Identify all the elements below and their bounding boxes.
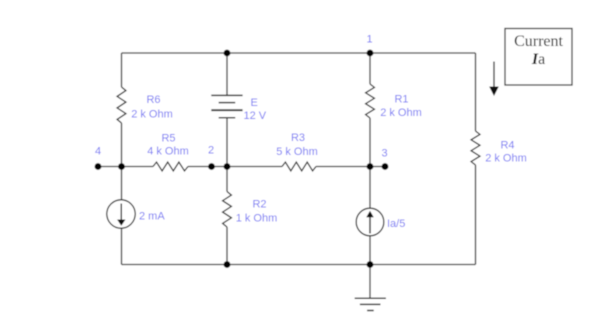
svg-text:Current: Current	[514, 33, 563, 50]
svg-text:2: 2	[208, 145, 214, 157]
svg-text:2 k Ohm: 2 k Ohm	[485, 153, 527, 165]
svg-text:R1: R1	[394, 94, 408, 106]
svg-text:R4: R4	[500, 140, 514, 152]
svg-text:4 k Ohm: 4 k Ohm	[147, 146, 189, 158]
svg-text:Ia: Ia	[531, 51, 545, 68]
svg-text:R2: R2	[252, 199, 266, 211]
svg-text:2 mA: 2 mA	[139, 211, 165, 223]
svg-text:R3: R3	[291, 132, 305, 144]
svg-text:4: 4	[95, 146, 101, 158]
svg-text:3: 3	[381, 148, 387, 160]
svg-text:1 k Ohm: 1 k Ohm	[236, 213, 278, 225]
svg-text:5 k Ohm: 5 k Ohm	[276, 146, 318, 158]
svg-text:R6: R6	[146, 94, 160, 106]
svg-text:Ia/5: Ia/5	[387, 218, 405, 230]
svg-text:2 k Ohm: 2 k Ohm	[380, 107, 422, 119]
svg-text:R5: R5	[161, 133, 175, 145]
svg-text:2 k Ohm: 2 k Ohm	[131, 109, 173, 121]
svg-text:E: E	[251, 97, 258, 109]
svg-text:1: 1	[366, 34, 372, 46]
svg-text:12 V: 12 V	[244, 110, 267, 122]
